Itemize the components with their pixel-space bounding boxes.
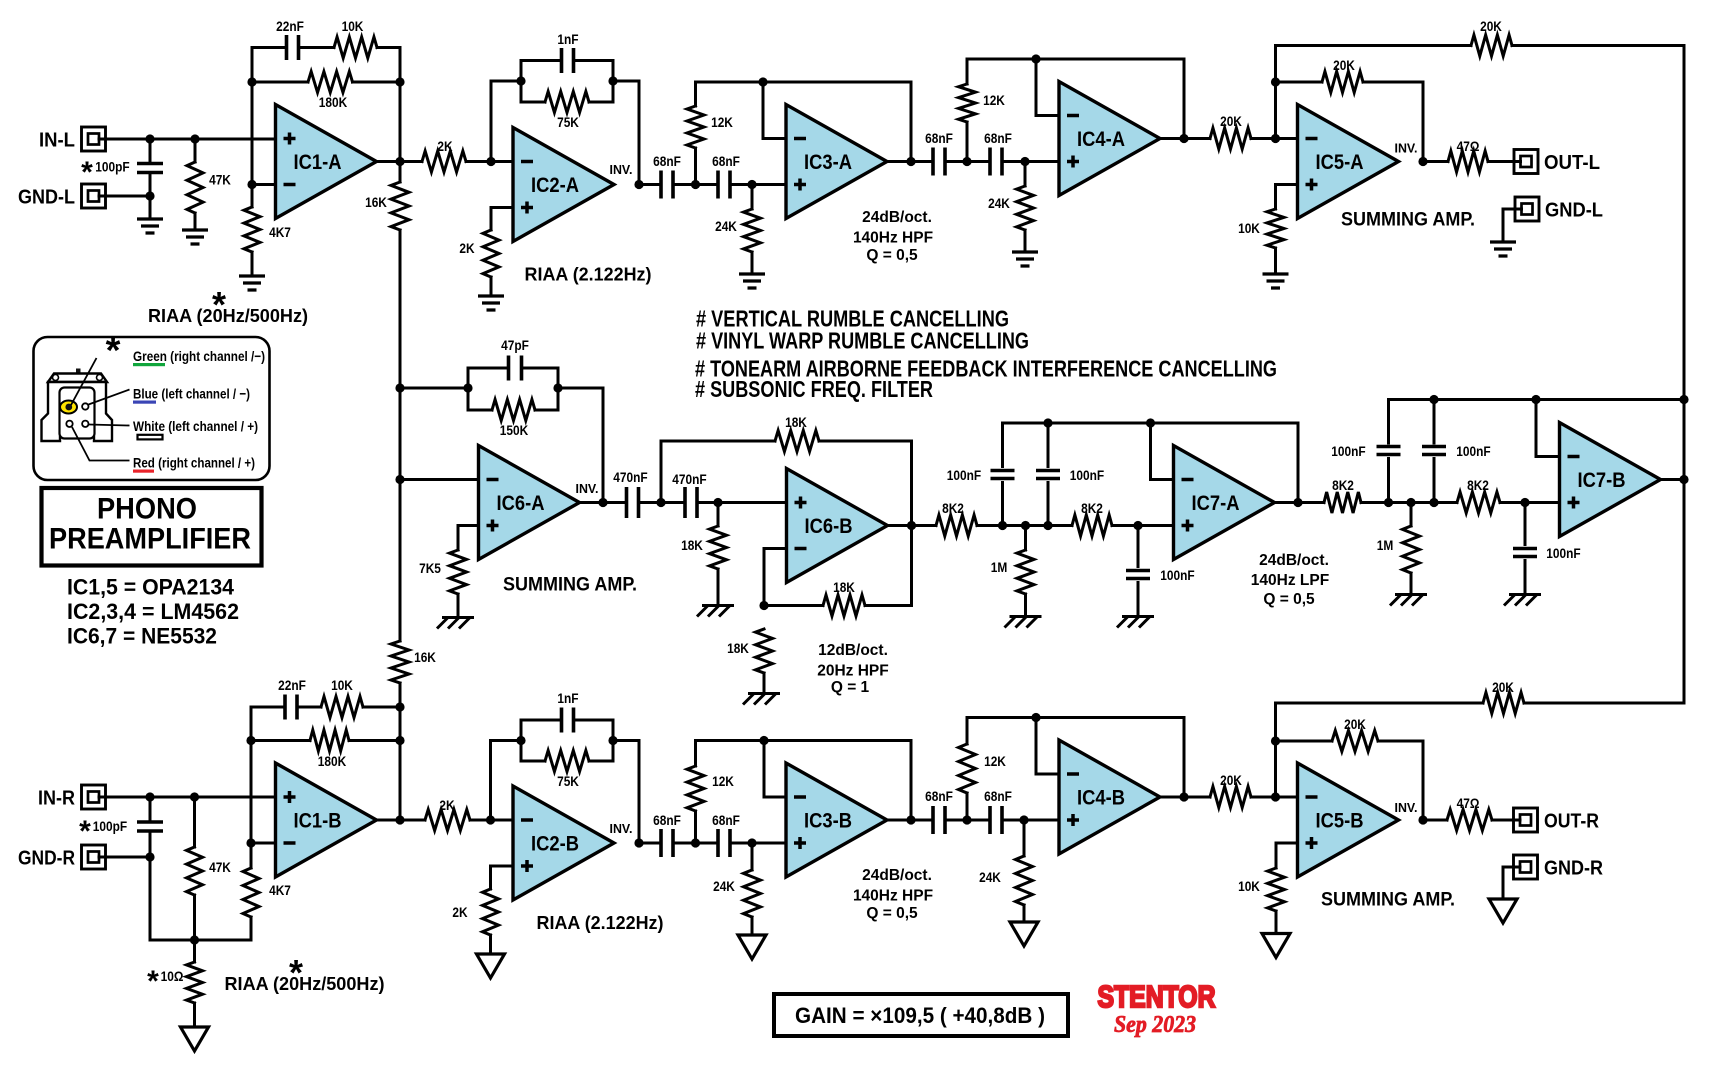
wire IC5-B + riser <box>1276 842 1298 845</box>
op-amp IC1-A <box>276 105 377 219</box>
capacitor 68nF L1 <box>661 171 673 199</box>
svg-text:20K: 20K <box>1344 716 1366 732</box>
wire IC4-B output <box>1160 796 1210 799</box>
node IC2-A inverting <box>486 157 495 166</box>
wire IC6-A out <box>580 501 627 504</box>
ground under 2K L <box>478 296 504 310</box>
ground chassis 1M 1 <box>1005 617 1042 628</box>
svg-text:Green (right channel /−): Green (right channel /−) <box>133 348 265 364</box>
svg-text:IC5-A: IC5-A <box>1316 151 1364 174</box>
capacitor 68nF L2 <box>718 171 730 199</box>
wire IC1-B inverting input <box>251 842 276 845</box>
svg-text:IN-L: IN-L <box>39 130 75 152</box>
svg-text:IC4-A: IC4-A <box>1077 128 1125 151</box>
wire IC5-A out to 47ohm <box>1423 160 1448 163</box>
svg-text:IC7-B: IC7-B <box>1578 469 1626 492</box>
ground chassis 1M 2 <box>1390 595 1427 606</box>
terminal OUT-L <box>1514 150 1538 174</box>
svg-text:68nF: 68nF <box>653 153 681 169</box>
wire 68nF4 to IC4-A + <box>1002 160 1059 163</box>
ground chassis 7K5 <box>437 618 474 629</box>
wire IC2-B loop to output <box>613 739 639 742</box>
svg-text:22nF: 22nF <box>278 677 306 693</box>
svg-text:IC1-A: IC1-A <box>294 151 342 174</box>
wire crossfeed right vertical <box>1683 46 1686 704</box>
wire 68nF4 to IC4-B + <box>1002 819 1059 822</box>
svg-text:# VINYL WARP RUMBLE CANCELLING: # VINYL WARP RUMBLE CANCELLING <box>696 328 1029 354</box>
svg-text:10Ω: 10Ω <box>161 968 184 984</box>
svg-text:12K: 12K <box>712 773 734 789</box>
op-amp IC5-B <box>1298 763 1399 877</box>
svg-text:IC6-A: IC6-A <box>497 492 545 515</box>
svg-text:*: * <box>106 330 121 372</box>
node input junction R1 <box>145 792 154 801</box>
resistor 20K L series <box>1210 128 1251 149</box>
wire IC3-A feedback top <box>696 81 912 84</box>
node IC2-B output <box>634 838 643 847</box>
resistor 2K L series <box>400 160 422 163</box>
op-amp IC2-A <box>513 128 614 242</box>
svg-text:12K: 12K <box>984 753 1006 769</box>
node input junction 1 <box>145 134 154 143</box>
node input junction R2 <box>190 792 199 801</box>
svg-text:75K: 75K <box>557 773 579 789</box>
svg-text:Q = 0,5: Q = 0,5 <box>866 905 918 922</box>
capacitor 68nF L3 <box>933 148 945 176</box>
wire IC5-B left vertical <box>1274 703 1277 797</box>
svg-text:*: * <box>81 156 93 189</box>
wire IC4-A feedback top <box>967 58 1184 61</box>
ground chassis 100nF sh2 <box>1504 595 1541 606</box>
svg-text:20K: 20K <box>1220 772 1242 788</box>
node IC5-A output <box>1418 157 1427 166</box>
wire IC6-A loop entry <box>400 387 468 390</box>
op-amp IC3-A <box>786 105 887 219</box>
svg-text:100pF: 100pF <box>95 159 130 175</box>
resistor 150K <box>468 409 492 412</box>
ground under 47K L <box>182 230 208 244</box>
svg-text:PHONO: PHONO <box>97 493 197 526</box>
svg-text:SUMMING AMP.: SUMMING AMP. <box>503 575 637 596</box>
wire IN-R to IC1-B + <box>99 796 276 799</box>
resistor 4K7 L <box>251 185 254 208</box>
ground under 24K L2 <box>1012 252 1038 266</box>
svg-text:10K: 10K <box>331 677 353 693</box>
node IC5-B inverting <box>1271 792 1280 801</box>
resistor 20K IC5-B feedback <box>1276 740 1333 743</box>
wire IC7-A fb right vertical <box>1297 423 1300 503</box>
node IC6-A loop left <box>463 383 472 392</box>
svg-text:68nF: 68nF <box>712 812 740 828</box>
svg-text:8K2: 8K2 <box>1081 500 1103 516</box>
resistor 8K2 2 <box>1072 515 1112 536</box>
svg-text:12K: 12K <box>711 114 733 130</box>
resistor 20K bottom crossfeed <box>1276 702 1484 705</box>
node 180K R left <box>246 736 255 745</box>
capacitor 100nF sh2 <box>1524 503 1527 545</box>
terminal IN-R <box>82 785 106 809</box>
svg-text:IC3-A: IC3-A <box>804 151 852 174</box>
ground triangle GND-R out <box>1489 899 1517 923</box>
op-amp IC7-A <box>1174 446 1275 560</box>
node IC2-B inverting <box>486 815 495 824</box>
svg-text:OUT-L: OUT-L <box>1544 152 1600 174</box>
wire IC5-A inv <box>1276 137 1298 140</box>
svg-text:IC6,7 = NE5532: IC6,7 = NE5532 <box>67 624 217 649</box>
wire IC4-A feedback right vertical <box>1183 59 1186 139</box>
node bus 10K <box>395 702 404 711</box>
svg-text:INV.: INV. <box>610 162 633 177</box>
svg-text:47Ω: 47Ω <box>1457 795 1480 811</box>
svg-text:47pF: 47pF <box>501 337 529 353</box>
wire IC7-A out <box>1275 501 1325 504</box>
svg-text:100nF: 100nF <box>1160 567 1195 583</box>
wire IC3-B feedback top <box>696 739 912 742</box>
svg-text:18K: 18K <box>785 414 807 430</box>
resistor 4K7 R <box>250 843 253 868</box>
svg-text:22nF: 22nF <box>276 18 304 34</box>
resistor 20K R series <box>1210 787 1251 808</box>
svg-text:150K: 150K <box>500 422 528 438</box>
wire IC4-A output <box>1160 137 1210 140</box>
svg-text:INV.: INV. <box>576 481 599 496</box>
wire IC2-A out to 68nF <box>639 183 661 186</box>
wire IC6-A loop to output <box>558 387 603 390</box>
wire IC3-B inverting riser <box>764 796 786 799</box>
node IC2-A output <box>634 180 643 189</box>
resistor 24K L2 <box>1024 162 1027 187</box>
svg-text:2K: 2K <box>437 138 452 154</box>
terminal GND-L input <box>82 184 106 208</box>
node LPF2 a <box>1384 498 1393 507</box>
wire IC3-A output <box>888 160 934 163</box>
svg-text:20K: 20K <box>1492 679 1514 695</box>
svg-text:2K: 2K <box>459 240 474 256</box>
capacitor 100nF fb2a <box>1387 400 1390 444</box>
svg-text:SUMMING AMP.: SUMMING AMP. <box>1321 890 1455 911</box>
node IC6-B inv bottom <box>759 601 768 610</box>
svg-text:18K: 18K <box>833 579 855 595</box>
svg-text:24K: 24K <box>715 218 737 234</box>
svg-text:100pF: 100pF <box>93 818 128 834</box>
ground chassis 18K shunt <box>697 606 734 617</box>
capacitor 68nF R2 <box>718 829 730 857</box>
svg-text:7K5: 7K5 <box>419 560 441 576</box>
svg-text:1nF: 1nF <box>557 690 579 706</box>
svg-text:20K: 20K <box>1333 57 1355 73</box>
wire IC6-A inverting input <box>400 478 479 481</box>
svg-text:Q = 0,5: Q = 0,5 <box>1263 591 1315 608</box>
ground triangle 10ohm <box>181 1027 209 1051</box>
svg-text:68nF: 68nF <box>925 788 953 804</box>
resistor 2K R series <box>400 819 425 822</box>
svg-text:18K: 18K <box>727 640 749 656</box>
svg-text:RIAA (20Hz/500Hz): RIAA (20Hz/500Hz) <box>148 306 308 326</box>
node LPF1 a <box>998 521 1007 530</box>
node 180K R right <box>395 736 404 745</box>
resistor 7K5 <box>450 550 467 594</box>
op-amp IC6-B <box>787 469 888 583</box>
ground under 10K IC5-A <box>1263 274 1289 288</box>
capacitor 470nF 2 <box>685 487 697 518</box>
wire IC2-A + riser <box>491 206 513 209</box>
resistor 10K IC5-A <box>1267 209 1284 248</box>
capacitor 1nF R <box>521 719 562 722</box>
wire IC6-A loop left vertical <box>467 368 470 410</box>
resistor 1M 2 <box>1410 503 1413 527</box>
node IC7-B output <box>1679 475 1688 484</box>
wire IC5-A left vertical <box>1274 46 1277 139</box>
wire IC1-A inverting input <box>252 183 276 186</box>
node LPF1 c <box>1043 521 1052 530</box>
resistor 18K IC6-B bottom fb <box>764 604 823 607</box>
resistor 75K L <box>521 101 545 104</box>
svg-text:INV.: INV. <box>610 821 633 836</box>
svg-text:IC4-B: IC4-B <box>1077 787 1125 810</box>
svg-text:IC1,5 = OPA2134: IC1,5 = OPA2134 <box>67 575 235 600</box>
wire IC4-B feedback right vertical <box>1183 718 1186 798</box>
capacitor 68nF R1 <box>661 829 673 857</box>
wire LPF1 top line <box>1003 422 1299 425</box>
capacitor 1nF L <box>521 59 562 62</box>
svg-text:16K: 16K <box>365 194 387 210</box>
wire IN-L to IC1-A + <box>99 138 276 141</box>
ground chassis 18K gnd <box>743 694 780 705</box>
wire IC6-B inverting riser <box>764 547 787 550</box>
wire 68nF3 to 68nF4 R <box>945 819 990 822</box>
resistor 8K2 1 <box>936 515 977 536</box>
svg-text:Sep 2023: Sep 2023 <box>1114 1012 1196 1038</box>
resistor 75K R <box>521 760 545 763</box>
node LPF2 b <box>1406 498 1415 507</box>
terminal GND-R output <box>1514 855 1538 879</box>
wire IC5-B out to 47ohm <box>1423 819 1447 822</box>
resistor 16K bottom bus <box>399 480 402 642</box>
svg-text:24dB/oct.: 24dB/oct. <box>862 867 932 884</box>
wire IC2-A loop to output <box>613 80 639 83</box>
svg-text:16K: 16K <box>414 649 436 665</box>
terminal GND-R input <box>82 845 106 869</box>
capacitor 68nF L4 <box>990 148 1002 176</box>
svg-text:47K: 47K <box>209 859 231 875</box>
svg-text:RIAA (2.122Hz): RIAA (2.122Hz) <box>537 913 664 933</box>
wire IC2-A loop right vertical <box>612 61 615 103</box>
terminal IN-L <box>82 127 106 151</box>
svg-text:100nF: 100nF <box>1456 443 1491 459</box>
wire IC2-A inv to triangle <box>491 160 513 163</box>
wire GND-R out to ground <box>1503 867 1520 899</box>
node LPF2 c <box>1429 498 1438 507</box>
capacitor 100nF sh1 <box>1137 526 1140 567</box>
resistor 12K R1 <box>694 741 697 767</box>
capacitor 100nF fb1b <box>1047 423 1050 467</box>
resistor 2K L gnd <box>483 230 499 277</box>
svg-text:IC1-B: IC1-B <box>294 810 342 833</box>
wire IC2-B loop right vertical <box>612 720 615 761</box>
svg-text:STENTOR: STENTOR <box>1098 979 1216 1014</box>
wire IC6-B out <box>888 524 937 527</box>
resistor 10K R feedback <box>321 697 363 718</box>
resistor 12K R2 <box>966 718 969 745</box>
wire 68nF3 to 68nF4 L <box>945 160 990 163</box>
wire 470nF2 to IC6-B + <box>697 501 787 504</box>
svg-text:Q = 0,5: Q = 0,5 <box>866 247 918 264</box>
svg-text:100nF: 100nF <box>1070 467 1105 483</box>
capacitor 68nF R4 <box>990 806 1002 834</box>
svg-text:Q = 1: Q = 1 <box>831 679 870 696</box>
node LPF2 d <box>1520 498 1529 507</box>
wire 68nF2 to IC3-B + <box>730 842 786 845</box>
svg-text:PREAMPLIFIER: PREAMPLIFIER <box>49 523 251 556</box>
node IC5-A inverting <box>1271 134 1280 143</box>
resistor 20K top crossfeed <box>1276 44 1472 47</box>
svg-text:2K: 2K <box>452 904 467 920</box>
capacitor 100pF R <box>149 797 152 822</box>
resistor 10ohm <box>193 940 196 962</box>
wire bus middle <box>399 388 402 480</box>
wire GND-R to 100pF <box>99 856 150 859</box>
svg-text:140Hz HPF: 140Hz HPF <box>853 230 933 247</box>
capacitor 100nF fb2b <box>1433 400 1436 444</box>
capacitor 22nF L <box>252 46 287 49</box>
svg-text:68nF: 68nF <box>984 130 1012 146</box>
wire IC1-A output to bus <box>377 160 401 163</box>
resistor 12K L1 <box>694 82 697 106</box>
svg-text:IC2-A: IC2-A <box>531 174 579 197</box>
wire IC1-B feedback left vertical <box>250 707 253 843</box>
wire IC2-B feedback riser <box>489 741 492 821</box>
terminal OUT-R <box>1514 808 1538 832</box>
svg-text:18K: 18K <box>681 537 703 553</box>
wire GND-L to 100pF <box>99 195 150 198</box>
ground chassis 100nF sh1 <box>1117 617 1154 628</box>
wire IC6-B fb cap riser <box>660 441 663 503</box>
svg-text:INV.: INV. <box>1395 141 1418 156</box>
ground under 100pF L <box>137 219 163 233</box>
svg-text:*: * <box>212 284 226 325</box>
wire 68nF2 to IC3-A + <box>730 183 786 186</box>
svg-text:IC6-B: IC6-B <box>805 515 853 538</box>
svg-text:24K: 24K <box>988 195 1010 211</box>
svg-text:100nF: 100nF <box>1546 545 1581 561</box>
svg-text:20Hz HPF: 20Hz HPF <box>817 663 889 680</box>
svg-text:100nF: 100nF <box>947 467 982 483</box>
resistor 10K L feedback <box>334 37 377 58</box>
ground under 4K7 L <box>239 276 265 290</box>
resistor 24K R2 <box>1023 820 1026 856</box>
svg-text:24K: 24K <box>713 878 735 894</box>
wire 68nF1 to 68nF2 L <box>673 183 718 186</box>
svg-text:# SUBSONIC FREQ. FILTER: # SUBSONIC FREQ. FILTER <box>695 376 933 402</box>
wire 68nF1 to 68nF2 R <box>673 842 718 845</box>
op-amp IC6-A <box>479 446 580 560</box>
resistor 24K R1 <box>751 843 754 870</box>
wire IC1-B feedback right vertical <box>399 707 402 820</box>
svg-text:4K7: 4K7 <box>269 224 291 240</box>
resistor 20K IC5-A feedback <box>1276 81 1323 84</box>
svg-text:140Hz LPF: 140Hz LPF <box>1251 572 1329 589</box>
wire IC2-A loop left vertical <box>520 61 523 103</box>
svg-text:68nF: 68nF <box>925 130 953 146</box>
op-amp IC2-B <box>513 786 614 900</box>
resistor 10K IC5-B <box>1268 868 1285 911</box>
svg-text:10K: 10K <box>1238 878 1260 894</box>
wire LPF2 top line <box>1389 398 1685 401</box>
op-amp IC1-B <box>276 763 377 877</box>
resistor 2K R gnd <box>483 889 499 935</box>
wire IC2-A feedback riser <box>490 81 493 162</box>
op-amp IC7-B <box>1560 423 1661 537</box>
wire IC4-B feedback top <box>967 716 1184 719</box>
wire 470nF1 to 470nF2 <box>639 501 686 504</box>
wire IC7-A inverting riser <box>1151 478 1174 481</box>
svg-text:Blue (left channel / −): Blue (left channel / −) <box>133 386 250 402</box>
svg-text:RIAA (2.122Hz): RIAA (2.122Hz) <box>525 265 652 285</box>
resistor 180K L <box>252 81 308 84</box>
resistor 18K IC6-B top fb <box>661 440 775 443</box>
svg-text:68nF: 68nF <box>712 153 740 169</box>
svg-text:20K: 20K <box>1220 113 1242 129</box>
resistor 47ohm L <box>1448 151 1488 172</box>
resistor 24K L1 <box>751 185 754 210</box>
wire IC3-B output <box>888 819 934 822</box>
resistor 18K shunt <box>717 503 720 527</box>
title box PHONO PREAMPLIFIER <box>42 488 262 566</box>
svg-text:8K2: 8K2 <box>1467 477 1489 493</box>
svg-text:GAIN = ×109,5 ( +40,8dB ): GAIN = ×109,5 ( +40,8dB ) <box>795 1003 1045 1028</box>
svg-text:GND-R: GND-R <box>1544 858 1604 880</box>
svg-text:SUMMING AMP.: SUMMING AMP. <box>1341 210 1475 231</box>
wire IC1-B output to bus <box>377 819 401 822</box>
wire IC5-B inv <box>1276 796 1298 799</box>
svg-text:RIAA (20Hz/500Hz): RIAA (20Hz/500Hz) <box>225 974 385 994</box>
svg-text:4K7: 4K7 <box>269 882 291 898</box>
svg-text:24K: 24K <box>979 869 1001 885</box>
wire IC2-B out to 68nF <box>639 842 661 845</box>
wire IC3-A feedback right vertical <box>910 82 913 162</box>
cartridge drawing <box>76 369 81 376</box>
svg-text:IN-R: IN-R <box>38 788 75 810</box>
ground triangle 24K R1 <box>738 935 766 959</box>
svg-text:1M: 1M <box>1377 537 1394 553</box>
resistor 18K gnd <box>756 629 773 673</box>
svg-text:GND-L: GND-L <box>18 187 75 209</box>
gain box <box>774 994 1068 1036</box>
svg-text:GND-R: GND-R <box>18 848 75 870</box>
svg-text:24dB/oct.: 24dB/oct. <box>862 209 932 226</box>
resistor 16K top bus <box>399 162 402 183</box>
resistor 12K L2 <box>966 59 969 84</box>
wire IC3-B feedback right vertical <box>910 741 913 821</box>
wire IC7-B output <box>1661 478 1685 481</box>
wire IC2-B inv to triangle <box>491 819 514 822</box>
svg-text:180K: 180K <box>318 753 346 769</box>
wire IC5-A + riser <box>1276 183 1298 186</box>
wire GND-L out to ground <box>1503 209 1522 242</box>
svg-text:100nF: 100nF <box>1331 443 1366 459</box>
resistor 1M 1 <box>1024 526 1027 551</box>
svg-text:68nF: 68nF <box>984 788 1012 804</box>
svg-text:12K: 12K <box>983 92 1005 108</box>
svg-text:10K: 10K <box>342 18 364 34</box>
svg-text:White (left channel / +): White (left channel / +) <box>133 418 258 434</box>
resistor 47ohm R <box>1447 810 1492 831</box>
cartridge legend box <box>34 337 270 480</box>
capacitor 100nF fb1a <box>1001 423 1004 467</box>
svg-text:12dB/oct.: 12dB/oct. <box>818 642 888 659</box>
svg-text:470nF: 470nF <box>672 471 707 487</box>
wire IC2-B loop left vertical <box>520 720 523 761</box>
